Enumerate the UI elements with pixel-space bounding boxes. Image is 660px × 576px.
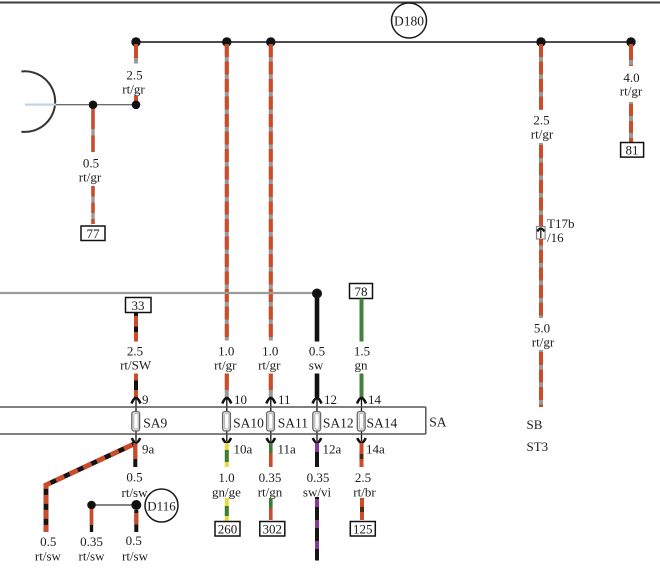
svg-text:rt/sw: rt/sw	[122, 485, 149, 500]
wire 2.5 rt/br upper (brown dash)	[360, 454, 364, 459]
terminal box 77	[81, 226, 105, 241]
wire 4.0 rt/gr upper (gray base)	[629, 44, 633, 66]
wire 0.35 rt/gn lower green part	[269, 498, 273, 508]
wire 1.0 rt/gr c10 lower segment (gray base)	[225, 374, 229, 398]
fuse strip SA right edge	[425, 407, 427, 434]
wire 1.5 gn lower segment	[360, 374, 364, 398]
wire 0.5 rt/gr upper segment (red dashes)	[91, 109, 94, 152]
wire 0.35 rt/sw (black base)	[90, 509, 93, 532]
svg-text:sw: sw	[309, 358, 324, 373]
junction dot 0.35 branch	[87, 501, 96, 510]
svg-text:0.5: 0.5	[83, 156, 99, 171]
wire 0.35 sw/vi upper black part	[315, 452, 319, 467]
wire 0.35 rt/gn upper red part	[269, 453, 273, 467]
pin 10 up arrow	[222, 398, 231, 404]
wire 0.35 rt/gn lower red part	[269, 508, 273, 520]
pin 12 up arrow	[313, 398, 322, 404]
svg-text:12a: 12a	[323, 442, 342, 457]
node D180 circle	[392, 3, 427, 38]
fuse SA10 inner	[225, 414, 229, 430]
svg-text:81: 81	[626, 143, 639, 158]
fuse SA11 body	[267, 412, 275, 432]
svg-text:11: 11	[278, 392, 291, 407]
svg-text:rt/gr: rt/gr	[531, 127, 554, 142]
svg-text:rt/gr: rt/gr	[620, 84, 643, 99]
wire 0.35 sw/vi lower (violet dashes)	[315, 497, 319, 561]
terminal box 81	[621, 143, 644, 158]
pin 14 shaft	[361, 398, 363, 441]
fuse SA9 body	[132, 412, 140, 432]
svg-text:302: 302	[263, 522, 283, 537]
svg-text:0.5: 0.5	[40, 534, 56, 549]
wire 0.5 rt/sw below D116 (red overlay)	[134, 513, 138, 525]
svg-text:2.5: 2.5	[533, 113, 549, 128]
svg-text:0.5: 0.5	[126, 470, 142, 485]
wire 1.0 rt/gr c11 upper segment (red dashes)	[269, 44, 273, 341]
svg-text:14: 14	[368, 392, 382, 407]
wire 2.5 rt/gr upper segment (gray base)	[134, 44, 138, 64]
wire 0.35 sw/vi upper violet part	[315, 443, 319, 452]
svg-text:2.5: 2.5	[126, 68, 142, 83]
svg-text:0.35: 0.35	[80, 534, 103, 549]
svg-text:1.0: 1.0	[262, 344, 278, 359]
wire 5.0 rt/gr mid (gray base)	[539, 239, 543, 318]
svg-text:0.5: 0.5	[309, 344, 325, 359]
svg-text:5.0: 5.0	[534, 321, 550, 336]
wire 2.5 rt/SW upper segment (red dashes)	[134, 313, 138, 342]
svg-text:rt/br: rt/br	[353, 485, 376, 500]
wire 2.5 rt/br lower (brown dash)	[360, 507, 364, 512]
pin 10 shaft	[226, 398, 228, 441]
fuse SA14 body	[357, 412, 365, 432]
svg-text:SA12: SA12	[323, 416, 354, 431]
svg-text:1.5: 1.5	[354, 344, 370, 359]
svg-text:2.5: 2.5	[355, 470, 371, 485]
svg-text:125: 125	[353, 522, 373, 537]
wire 0.5 sw upper segment	[315, 296, 320, 342]
wire 2.5 rt/SW lower segment (red dashes)	[134, 374, 138, 398]
pin 14 up arrow	[357, 398, 366, 404]
connector T17b arrow	[540, 229, 542, 238]
wire 2.5 rt/br lower (red base)	[360, 498, 364, 520]
wire 4.0 rt/gr lower (red dashes)	[629, 102, 633, 142]
svg-text:78: 78	[355, 284, 368, 299]
wire 2.5 rt/gr right upper (gray base)	[539, 44, 543, 110]
wire 1.0 rt/gr c10 lower segment (red dashes)	[225, 374, 229, 398]
svg-text:T17b: T17b	[547, 216, 574, 231]
svg-text:rt/gr: rt/gr	[258, 358, 281, 373]
svg-text:rt/gn: rt/gn	[258, 485, 283, 500]
connector T17b arrowhead	[537, 229, 544, 232]
svg-text:1.0: 1.0	[218, 344, 234, 359]
wire 0.5 rt/gr lower segment (gray base)	[91, 186, 94, 224]
junction dot D116	[131, 500, 141, 510]
junction dot sw wire start	[312, 289, 322, 299]
wire 0.5 sw lower segment	[315, 374, 320, 398]
wire 0.5 rt/sw below D116 (black base)	[134, 510, 138, 532]
pin 10a down arrow	[223, 438, 231, 443]
fuse SA10 body	[223, 412, 231, 432]
wire 2.5 rt/gr right upper (red dashes)	[539, 44, 543, 110]
lamp symbol partial arc	[21, 71, 55, 132]
svg-text:rt/gr: rt/gr	[214, 358, 237, 373]
pin 12 shaft	[316, 398, 318, 441]
wire 1.0 rt/gr c11 lower segment (red dashes)	[269, 374, 273, 398]
junction dot bus-left	[131, 37, 140, 46]
fuse SA11 inner	[269, 414, 273, 430]
wire 0.5 rt/gr upper segment (gray base)	[91, 109, 94, 152]
svg-text:D116: D116	[147, 499, 176, 514]
wire 5.0 rt/gr lower (red dashes)	[539, 350, 543, 407]
svg-text:rt/SW: rt/SW	[120, 358, 152, 373]
wire 2.5 rt/gr stub above junction	[134, 96, 138, 102]
terminal box 260	[215, 522, 240, 537]
svg-text:2.5: 2.5	[127, 344, 143, 359]
lamp filament blue line	[25, 103, 56, 105]
svg-text:SA9: SA9	[143, 416, 167, 431]
bus wire (top horizontal)	[136, 41, 631, 43]
svg-text:12: 12	[324, 392, 337, 407]
wire 1.0 gn/ge lower (green dash)	[225, 506, 229, 516]
svg-text:rt/sw: rt/sw	[35, 549, 62, 564]
pin 12a down arrow	[313, 438, 321, 443]
fuse SA12 inner	[315, 414, 319, 430]
wire 2.5 rt/gr right mid (red dashes)	[539, 143, 543, 226]
wire 0.5 rt/sw below 9a (black base)	[133, 444, 137, 467]
junction dot at lamp branch	[89, 101, 98, 110]
pin 9 up arrow	[132, 398, 141, 404]
wire lamp-to-node horizontal	[56, 104, 136, 106]
svg-text:10: 10	[234, 392, 247, 407]
terminal box 78	[350, 284, 373, 299]
svg-text:260: 260	[218, 522, 238, 537]
wire 2.5 rt/SW upper segment (black base)	[134, 313, 138, 342]
junction dot bus c11	[266, 37, 275, 46]
wire 2.5 rt/br upper (red base)	[360, 443, 364, 467]
terminal box 125	[350, 522, 375, 537]
pin 11a down arrow	[267, 438, 275, 443]
wire 1.0 rt/gr c11 lower segment (gray base)	[269, 374, 273, 398]
svg-text:14a: 14a	[366, 442, 385, 457]
pin 9 shaft	[135, 398, 137, 441]
wire 1.0 rt/gr c10 upper segment (gray base)	[225, 44, 229, 341]
svg-text:33: 33	[132, 298, 145, 313]
wire 2.5 rt/gr upper segment (red dashes)	[134, 44, 138, 64]
svg-text:10a: 10a	[234, 442, 253, 457]
pin 11 up arrow	[266, 398, 275, 404]
svg-text:0.35: 0.35	[307, 470, 330, 485]
fuse strip SA top rail	[0, 406, 426, 408]
svg-text:0.35: 0.35	[259, 470, 282, 485]
wire 0.5 rt/gr lower segment (red dashes)	[91, 186, 94, 224]
svg-text:9a: 9a	[142, 442, 155, 457]
wire 0.5 rt/sw diagonal (red dashes)	[46, 444, 134, 532]
wire 1.5 gn upper segment	[360, 299, 364, 342]
fuse SA9 inner	[134, 414, 138, 430]
fuse SA12 body	[313, 412, 321, 432]
svg-text:rt/gr: rt/gr	[122, 82, 145, 97]
svg-text:SA14: SA14	[367, 416, 398, 431]
wire 2.5 rt/SW lower segment (black base)	[134, 374, 138, 398]
svg-text:SB: SB	[527, 417, 543, 432]
wire 1.0 gn/ge lower (yellow base)	[225, 498, 229, 521]
wire 5.0 rt/gr lower (gray base)	[539, 350, 543, 407]
svg-text:rt/sw: rt/sw	[79, 549, 106, 564]
fuse SA14 inner	[359, 414, 363, 430]
svg-text:gn: gn	[355, 358, 369, 373]
svg-text:SA11: SA11	[278, 416, 308, 431]
svg-text:1.0: 1.0	[218, 470, 234, 485]
connector T17b body	[537, 227, 546, 240]
wire 1.0 rt/gr c11 upper segment (gray base)	[269, 44, 273, 341]
svg-text:gn/ge: gn/ge	[212, 485, 241, 500]
svg-text:77: 77	[87, 226, 101, 241]
wire 0.35 rt/gn upper green part	[269, 443, 273, 453]
svg-text:SA10: SA10	[233, 416, 264, 431]
svg-text:D180: D180	[394, 14, 424, 29]
junction dot bus right-end	[626, 37, 635, 46]
junction dot bus right-mid	[536, 37, 545, 46]
svg-text:11a: 11a	[278, 442, 297, 457]
svg-text:rt/sw: rt/sw	[122, 549, 149, 564]
wire 4.0 rt/gr lower (gray base)	[629, 102, 633, 142]
svg-text:0.5: 0.5	[126, 533, 142, 548]
svg-text:rt/gr: rt/gr	[79, 170, 102, 185]
fuse strip SA bottom rail	[0, 433, 426, 435]
wire 1.0 gn/ge upper (yellow base)	[225, 443, 229, 467]
wire branch horizontal at D116	[92, 504, 137, 506]
pin 11 shaft	[270, 398, 272, 441]
wire 0.5 rt/sw diagonal (black base)	[46, 444, 134, 532]
svg-text:9: 9	[142, 392, 149, 407]
top border line	[0, 2, 660, 4]
wire 0.5 rt/sw below 9a (red dashes)	[133, 444, 137, 467]
wire 0.35 sw/vi lower (black base)	[315, 497, 319, 561]
node D116 circle	[145, 489, 178, 522]
junction dot bus c10	[222, 37, 231, 46]
wire 0.35 rt/sw (red overlay)	[90, 509, 93, 525]
wire 2.5 rt/gr right mid (gray base)	[539, 143, 543, 226]
svg-text:/16: /16	[547, 230, 564, 245]
wire 1.0 gn/ge upper (green dash)	[225, 450, 229, 462]
svg-text:ST3: ST3	[527, 439, 549, 454]
wire 1.0 rt/gr c10 upper segment (red dashes)	[225, 44, 229, 341]
svg-text:rt/gr: rt/gr	[532, 335, 555, 350]
pin 14a down arrow	[357, 438, 365, 443]
svg-text:SA: SA	[429, 415, 447, 430]
terminal box 302	[260, 522, 285, 537]
terminal box 33	[126, 298, 152, 313]
interior gray rail	[0, 292, 317, 294]
wire 4.0 rt/gr upper (red dashes)	[629, 44, 633, 66]
pin 9a down arrow	[132, 438, 140, 443]
wire 5.0 rt/gr mid (red dashes)	[539, 239, 543, 318]
junction dot below 2.5 rt/gr	[132, 101, 141, 110]
